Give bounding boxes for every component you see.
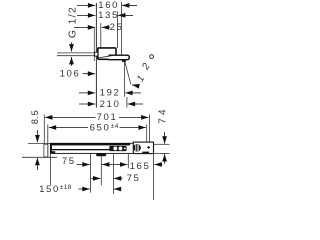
8.5 top extension bbox=[28, 143, 50, 145]
svg-text:±18: ±18 bbox=[60, 184, 72, 191]
button 1 bbox=[113, 146, 117, 150]
8.5 bottom arrow bbox=[36, 158, 38, 170]
handle dot bbox=[147, 146, 150, 149]
wall line bbox=[95, 3, 97, 108]
wall inner line bbox=[93, 28, 95, 61]
spout nipple bbox=[95, 52, 98, 56]
select panel bbox=[109, 146, 126, 151]
74 bottom extension bbox=[154, 153, 170, 155]
ext L5 bbox=[153, 154, 155, 200]
pipe lines bbox=[57, 52, 95, 54]
glass band bbox=[50, 143, 130, 145]
svg-text:75: 75 bbox=[62, 156, 76, 167]
ext bar left edge down bbox=[49, 153, 51, 185]
svg-text:106: 106 bbox=[60, 69, 81, 80]
dim 106 bbox=[60, 69, 96, 80]
extension 650 left bbox=[47, 125, 49, 158]
spout inner diagonal bbox=[99, 55, 115, 58]
svg-text:165: 165 bbox=[130, 161, 151, 172]
dim 165 bbox=[108, 161, 163, 172]
74 top arrow bbox=[164, 132, 166, 144]
dim 75 upper bbox=[62, 156, 108, 167]
svg-text:8.5: 8.5 bbox=[29, 110, 40, 125]
svg-text:74: 74 bbox=[157, 106, 168, 124]
handle block bbox=[133, 142, 153, 154]
groove band bbox=[52, 149, 110, 150]
svg-text:±4: ±4 bbox=[111, 123, 119, 130]
extension 701 left bbox=[43, 115, 45, 145]
small dot bbox=[124, 147, 126, 149]
dim 25 bbox=[74, 22, 123, 33]
dim 650 bbox=[49, 122, 146, 133]
extension line 25 dim bbox=[100, 23, 102, 48]
ext L1 bbox=[90, 153, 92, 192]
dim 210 bbox=[79, 99, 143, 110]
knob bbox=[133, 144, 141, 152]
dim 160 bbox=[77, 0, 137, 11]
8.5 bottom extension bbox=[22, 156, 57, 158]
svg-text:650: 650 bbox=[90, 122, 111, 133]
dim 701 bbox=[45, 112, 149, 123]
svg-text:75: 75 bbox=[127, 173, 141, 184]
outlet nub bbox=[96, 153, 106, 156]
dim 135 bbox=[77, 10, 133, 21]
8.5 top arrow bbox=[36, 130, 38, 142]
74 top extension bbox=[154, 143, 170, 145]
button 2 bbox=[119, 146, 123, 150]
extension line 210 bbox=[126, 97, 128, 108]
svg-text:210: 210 bbox=[100, 99, 121, 110]
ext L3 bbox=[112, 153, 114, 194]
svg-text:G 1/2: G 1/2 bbox=[68, 6, 79, 38]
spout body bbox=[98, 48, 116, 59]
extension 650 right bbox=[146, 125, 148, 143]
dim 150 bbox=[39, 184, 121, 195]
12 degree line bbox=[125, 62, 131, 85]
svg-text:25: 25 bbox=[110, 22, 124, 33]
G 1/2 leader arrows bbox=[71, 43, 73, 67]
extension line 135 dim bbox=[116, 12, 118, 49]
74 bottom arrow bbox=[164, 154, 166, 163]
dim 192 bbox=[79, 88, 141, 99]
12 degree arrow bbox=[132, 85, 138, 86]
small tick on bar bottom bbox=[52, 151, 55, 153]
wall connector bbox=[44, 144, 48, 157]
ext L4 bbox=[127, 153, 129, 168]
extension line 192 bbox=[123, 62, 125, 97]
extension line 160 dim bbox=[120, 2, 122, 55]
spout tip bar bbox=[109, 55, 130, 60]
handle base mark bbox=[142, 152, 149, 154]
svg-text:192: 192 bbox=[100, 88, 121, 99]
dim 75 lower bbox=[92, 173, 141, 184]
ext L2 bbox=[100, 156, 102, 185]
bar body bbox=[50, 143, 153, 153]
svg-text:135: 135 bbox=[98, 10, 119, 21]
svg-text:150: 150 bbox=[39, 184, 60, 195]
extension 701 right bbox=[149, 115, 151, 143]
aerator nub bbox=[122, 60, 125, 62]
bar left bold edge bbox=[50, 143, 52, 153]
